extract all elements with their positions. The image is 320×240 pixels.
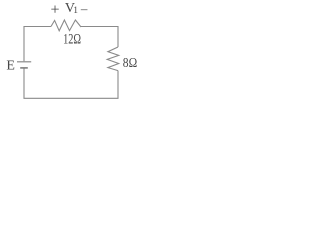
svg-text:+: + bbox=[51, 2, 60, 19]
svg-text:8Ω: 8Ω bbox=[123, 56, 137, 71]
resistor R2 8 ohm (right zigzag) bbox=[107, 47, 119, 71]
svg-text:1: 1 bbox=[73, 6, 78, 16]
svg-text:E: E bbox=[6, 59, 15, 74]
wire top-right segment bbox=[81, 27, 118, 48]
battery E bottom plate (short) bbox=[20, 67, 28, 69]
wire left-bottom segment bbox=[24, 68, 118, 98]
svg-text:12Ω: 12Ω bbox=[63, 32, 81, 48]
svg-text:–: – bbox=[80, 1, 88, 16]
battery E top plate (long) bbox=[17, 61, 31, 63]
resistor R1 12 ohm (top zigzag) bbox=[51, 20, 81, 31]
wire top-left segment bbox=[24, 27, 51, 62]
